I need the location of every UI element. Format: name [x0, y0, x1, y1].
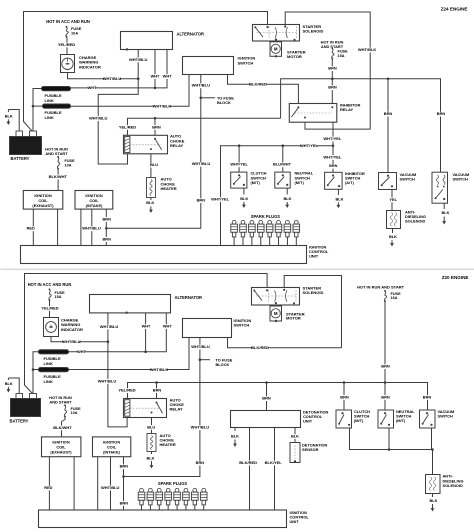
svg-text:10A: 10A — [71, 411, 78, 415]
node HOT IN RUN AND START (relay feed) — [321, 40, 344, 50]
svg-text:BLK/YEL: BLK/YEL — [265, 460, 283, 465]
ignition coil exhaust (Z20) — [42, 437, 81, 457]
wire exhaust coil second output (Z20) — [73, 457, 75, 510]
svg-text:BRN: BRN — [153, 388, 162, 393]
ground anti-dieseling solenoid — [389, 229, 397, 247]
svg-text:BLK: BLK — [240, 196, 248, 201]
svg-text:UNIT: UNIT — [309, 254, 319, 259]
svg-text:BRN: BRN — [262, 396, 271, 401]
svg-text:HOT IN RUN AND START: HOT IN RUN AND START — [357, 284, 405, 289]
node HOT IN ACC AND RUN (Z20) — [28, 282, 72, 287]
svg-text:BLK: BLK — [442, 210, 450, 215]
wire BRN fuse to bus (Z20) — [381, 302, 390, 383]
starter solenoid (Z20) — [252, 286, 324, 306]
svg-text:WHT/BLK: WHT/BLK — [153, 104, 172, 109]
svg-text:BLK/WHT: BLK/WHT — [49, 174, 68, 179]
ignition control unit (Z24) — [21, 245, 329, 264]
svg-text:AND START: AND START — [49, 400, 72, 405]
wire BRN distribution bus (Z20) — [128, 381, 428, 410]
node BRN relay feed — [152, 124, 161, 130]
wire WHT/BLK fusible link to ignition switch — [71, 75, 190, 110]
wire BRN to vacuum switch 1 — [384, 79, 393, 173]
wire RED exhaust coil to control unit — [27, 209, 35, 245]
node HOT IN ACC AND RUN — [46, 19, 90, 24]
ignition coil exhaust (Z24) — [23, 191, 63, 210]
wire BRN neutral switch feed (Z20) — [381, 383, 390, 411]
svg-text:BRN: BRN — [381, 394, 390, 399]
ground battery negative (Z20) — [5, 378, 13, 393]
svg-text:BLK/RED: BLK/RED — [249, 82, 267, 87]
svg-text:INDICATOR: INDICATOR — [61, 327, 83, 332]
svg-text:BRN: BRN — [328, 66, 337, 71]
svg-text:LINK: LINK — [45, 98, 54, 103]
svg-text:WHT/BLU: WHT/BLU — [103, 76, 122, 81]
svg-text:WHT: WHT — [163, 74, 172, 79]
svg-text:FUSE: FUSE — [338, 50, 349, 54]
svg-text:SOLENOID: SOLENOID — [303, 290, 324, 295]
svg-text:SWITCH: SWITCH — [453, 177, 469, 182]
fuse FUSE 10A (coil feed Z20) — [64, 404, 81, 417]
svg-text:SWITCH: SWITCH — [438, 413, 454, 418]
svg-text:YEL: YEL — [389, 197, 397, 202]
wire BRN fuse to inhibitor relay — [328, 60, 337, 104]
wire BLU relay to choke heater (Z20) — [147, 418, 155, 434]
svg-text:SWITCH: SWITCH — [238, 60, 254, 65]
svg-text:BRN: BRN — [423, 394, 432, 399]
svg-text:WHT: WHT — [142, 324, 151, 329]
svg-text:SPARK PLUGS: SPARK PLUGS — [251, 214, 281, 219]
svg-text:ALTERNATOR: ALTERNATOR — [177, 31, 205, 36]
starter solenoid (Z24) — [253, 24, 324, 41]
panel separator line — [1, 268, 474, 270]
switch vacuum (Z20) — [420, 409, 455, 428]
svg-text:WHT/BLU: WHT/BLU — [89, 115, 108, 120]
wire WHT/BLU ignition switch run — [106, 75, 210, 229]
svg-text:BRN: BRN — [102, 236, 111, 241]
wire BLK/WHT fuse to exhaust coil — [49, 170, 68, 191]
heater auto choke (Z24) — [147, 177, 177, 198]
ground battery negative (Z24) — [5, 110, 13, 126]
svg-text:BLK: BLK — [430, 498, 438, 503]
svg-text:16A: 16A — [391, 296, 398, 300]
ignition switch (Z20) — [183, 318, 252, 338]
wire battery negative to ground (Z20) — [8, 378, 19, 394]
wire BLU/WHT neutral switch feed — [273, 146, 292, 172]
ground neutral switch — [284, 188, 292, 208]
solenoid anti-dieseling (Z20) — [426, 474, 464, 494]
svg-text:WHT/YEL: WHT/YEL — [211, 197, 230, 202]
svg-text:RED: RED — [27, 226, 35, 231]
switch neutral (Z24) — [275, 171, 314, 188]
svg-text:(M/T): (M/T) — [396, 418, 406, 423]
wire battery positive feed (Z20 border run) — [25, 274, 268, 394]
switch vacuum 1 (Z24) — [379, 172, 417, 190]
svg-text:WHT/BLU: WHT/BLU — [98, 378, 117, 383]
wire stub TO FUSE BLOCK — [201, 95, 234, 105]
wire WHT alternator pins to bus — [71, 50, 173, 91]
wire YEL/RED fuse to indicator (Z20) — [41, 301, 58, 318]
wire solenoid to starter motor — [275, 40, 277, 43]
svg-text:WHT/BLU: WHT/BLU — [100, 324, 119, 329]
heater auto choke (Z20) — [147, 433, 176, 452]
svg-text:BLK: BLK — [336, 196, 344, 201]
wire WHT alternator pins to bus (Z20) — [69, 313, 173, 355]
wire WHT/BLK fusible link to ignition switch (Z20) — [69, 338, 190, 373]
svg-text:HEATER: HEATER — [160, 442, 176, 447]
ignition coil intake (Z20) — [93, 437, 131, 457]
svg-text:RELAY: RELAY — [170, 407, 184, 412]
svg-text:BLK/RED: BLK/RED — [239, 460, 257, 465]
ground clutch switch — [240, 188, 248, 208]
fusible link 2 (Z20) — [39, 368, 69, 385]
svg-text:BLK: BLK — [5, 381, 13, 386]
wire solenoid to starter motor (Z20) — [275, 305, 277, 306]
svg-text:(EXHAUST): (EXHAUST) — [32, 203, 54, 208]
svg-text:YEL/RED: YEL/RED — [119, 124, 136, 129]
svg-text:MOTOR: MOTOR — [287, 54, 302, 59]
node SPARK PLUGS (Z24) — [251, 214, 281, 219]
wire BLK/RED detonation to control unit — [239, 428, 257, 511]
fuse FUSE 15A (relay feed) — [331, 47, 348, 59]
indicator charge warning (Z24) — [61, 55, 101, 73]
switch clutch (Z20) — [336, 409, 370, 428]
svg-text:WHT/BLK: WHT/BLK — [358, 47, 377, 52]
wire WHT/BLU intake coil output b — [82, 209, 101, 245]
wire WHT/YEL inhibitor relay to switches — [323, 122, 342, 172]
svg-text:WHT/BLU: WHT/BLU — [82, 226, 101, 231]
svg-text:(INTAKE): (INTAKE) — [103, 450, 120, 455]
svg-text:WHT/YEL: WHT/YEL — [323, 155, 342, 160]
svg-text:WHT: WHT — [151, 74, 160, 79]
ignition switch (Z24) — [183, 56, 256, 75]
fuse FUSE 10A (charge indicator) — [66, 26, 82, 38]
svg-text:M: M — [274, 47, 278, 52]
svg-text:BLK/RED: BLK/RED — [251, 345, 269, 350]
svg-text:BLK: BLK — [231, 434, 239, 439]
svg-text:RED: RED — [44, 485, 52, 490]
wire fusible links to battery positive — [32, 89, 43, 132]
wire BRN vacuum switch feed (Z20) — [423, 394, 432, 400]
svg-text:WHT/BLU: WHT/BLU — [129, 57, 148, 62]
starter motor (Z20) — [270, 306, 305, 322]
svg-text:BRN: BRN — [102, 216, 111, 221]
wire BRN choke relay feed (Z20) — [153, 383, 162, 399]
switch clutch (Z24) — [231, 171, 267, 188]
svg-text:SWITCH: SWITCH — [400, 177, 416, 182]
wire WHT/BLU indicator to alternator junction — [68, 73, 140, 82]
wire BRN clutch switch feed (Z20) — [340, 383, 349, 411]
fusible link 1 (Z24) — [42, 87, 71, 103]
wire BRN intake coil output c — [102, 209, 111, 245]
wire starter solenoid to inhibitor relay (top right run) — [285, 12, 370, 129]
svg-text:HOT IN ACC AND RUN: HOT IN ACC AND RUN — [46, 19, 90, 24]
svg-text:BLK: BLK — [146, 200, 154, 205]
indicator charge warning (Z20) — [44, 318, 83, 337]
switch inhibitor (Z24) — [325, 171, 365, 189]
svg-text:AND START: AND START — [45, 151, 68, 156]
ground choke heater (Z24) — [146, 198, 154, 214]
svg-text:BRN: BRN — [381, 364, 390, 369]
svg-text:YEL/RED: YEL/RED — [41, 305, 58, 310]
svg-text:FUSE: FUSE — [391, 292, 402, 296]
fusible link 2 (Z24) — [43, 104, 71, 120]
battery (Z20) — [10, 394, 41, 424]
svg-text:Z24 ENGINE: Z24 ENGINE — [441, 7, 468, 12]
ignition coil intake (Z24) — [75, 191, 113, 210]
svg-text:BLOCK: BLOCK — [217, 100, 231, 105]
wire BRN to vacuum switch 2 label — [437, 111, 446, 117]
svg-text:(A/T): (A/T) — [345, 180, 355, 185]
svg-text:SWITCH: SWITCH — [234, 323, 250, 328]
wire exhaust coil second output — [57, 209, 59, 245]
wire intake coil output a — [80, 209, 82, 245]
wire battery positive feed (left border / top run) — [24, 12, 268, 132]
svg-text:(EXHAUST): (EXHAUST) — [50, 450, 72, 455]
wire WHT/BLU indicator junction (Z20) — [51, 337, 109, 345]
switch vacuum 2 (Z24) — [432, 172, 469, 203]
svg-text:LINK: LINK — [45, 115, 54, 120]
wire YEL vacuum switch to solenoid — [389, 190, 397, 211]
svg-text:BRN: BRN — [437, 111, 446, 116]
svg-text:BLU: BLU — [150, 162, 158, 167]
svg-text:BATTERY: BATTERY — [11, 156, 30, 161]
fusible link 1 (Z20) — [39, 350, 69, 366]
node SPARK PLUGS (Z20) — [158, 481, 188, 486]
svg-text:Z20 ENGINE: Z20 ENGINE — [442, 275, 469, 280]
svg-text:WHT/BLU: WHT/BLU — [101, 485, 120, 490]
node YEL/RED relay feed — [119, 124, 136, 130]
svg-text:SENSOR: SENSOR — [302, 447, 319, 452]
svg-text:BRN: BRN — [197, 198, 206, 203]
relay auto choke (Z24) — [124, 134, 185, 154]
wire BLK/RED ignition switch to inhibitor relay — [228, 75, 299, 104]
svg-text:BRN: BRN — [152, 124, 161, 129]
wire intake coil output a (Z20) — [97, 457, 99, 510]
fuse FUSE 15A (charge indicator Z20) — [49, 288, 65, 301]
svg-text:ALTERNATOR: ALTERNATOR — [175, 295, 203, 300]
svg-text:BLK: BLK — [147, 455, 155, 460]
ground anti-dieseling solenoid (Z20) — [430, 494, 438, 512]
wire WHT/BLU alternator output — [89, 50, 148, 165]
engine label Z20 — [442, 275, 469, 280]
switch neutral (Z20) — [378, 409, 415, 428]
fuse FUSE 16A (bus feed Z20) — [384, 290, 401, 302]
svg-text:BRN: BRN — [329, 164, 337, 168]
svg-text:BRN: BRN — [120, 464, 129, 469]
svg-text:SOLENOID: SOLENOID — [443, 483, 464, 488]
wire starter solenoid to BLK/RED run (Z20) — [284, 276, 341, 348]
wire WHT/BLK solenoid branch label — [358, 47, 377, 53]
wire BRN distribution bus — [281, 78, 441, 173]
wire BRN detonation unit feed — [262, 383, 271, 411]
svg-text:WHT/BLU: WHT/BLU — [192, 161, 211, 166]
svg-text:BLK: BLK — [284, 196, 292, 201]
wire BLK/YEL detonation to control unit — [265, 428, 283, 511]
alternator (Z24) — [121, 31, 205, 50]
svg-text:BRN: BRN — [340, 394, 349, 399]
wire BLU relay to choke heater — [150, 154, 158, 178]
svg-text:WHT: WHT — [88, 85, 97, 90]
svg-text:BLK: BLK — [5, 113, 13, 118]
node HOT IN RUN AND START (coil feed) — [45, 147, 68, 157]
svg-text:YEL/RED: YEL/RED — [118, 388, 135, 393]
ignition control unit (Z20) — [39, 510, 310, 528]
ground detonation unit left — [231, 428, 239, 448]
alternator (Z20) — [90, 295, 203, 314]
node YEL/RED relay feed (Z20) — [118, 388, 135, 394]
svg-text:BLU: BLU — [147, 424, 155, 429]
svg-text:SOLENOID: SOLENOID — [405, 219, 426, 224]
svg-text:WHT: WHT — [77, 349, 86, 354]
svg-text:WHT: WHT — [163, 324, 172, 329]
starter motor (Z24) — [270, 42, 306, 59]
spark plugs x8 (Z24) — [231, 220, 300, 245]
svg-text:(M/T): (M/T) — [354, 418, 364, 423]
wire BRN intake coil output c (Z20) — [120, 457, 129, 510]
svg-text:15A: 15A — [338, 54, 345, 58]
wire battery negative to ground — [8, 110, 19, 132]
svg-text:BLK: BLK — [291, 434, 299, 439]
svg-text:(M/T): (M/T) — [251, 180, 261, 185]
svg-text:BLK: BLK — [389, 234, 397, 239]
wire BLK detonation sensor feed — [291, 428, 299, 443]
svg-text:HEATER: HEATER — [161, 186, 177, 191]
wire WHT/BLU intake coil output b (Z20) — [101, 457, 120, 510]
wire WHT/BLU alternator output (Z20) — [98, 313, 127, 427]
svg-text:WHT/BLU: WHT/BLU — [192, 83, 211, 88]
svg-text:UNIT: UNIT — [290, 519, 300, 524]
svg-text:BLOCK: BLOCK — [216, 362, 230, 367]
svg-text:YEL/RED: YEL/RED — [58, 42, 75, 47]
svg-text:MOTOR: MOTOR — [286, 316, 301, 321]
svg-text:BRN: BRN — [120, 500, 129, 505]
svg-text:WHT/YEL: WHT/YEL — [230, 162, 248, 167]
svg-text:HOT IN ACC AND RUN: HOT IN ACC AND RUN — [28, 282, 72, 287]
relay inhibitor (Z24) — [289, 102, 360, 122]
svg-text:RELAY: RELAY — [340, 107, 354, 112]
svg-text:RELAY: RELAY — [170, 143, 184, 148]
relay auto choke (Z20) — [124, 398, 185, 418]
node HOT IN RUN AND START (coil feed Z20) — [49, 395, 72, 405]
node HOT IN RUN AND START (bus feed Z20) — [357, 284, 405, 289]
wire switch output bus (Z20) — [350, 429, 434, 475]
wire BLK/RED ignition switch to solenoid branch (Z20) — [228, 338, 342, 351]
svg-text:WHT/BLK: WHT/BLK — [150, 367, 169, 372]
wire YEL/RED fuse to indicator — [58, 38, 75, 55]
svg-text:WHT/BLU: WHT/BLU — [191, 344, 210, 349]
svg-text:10A: 10A — [71, 30, 78, 35]
svg-text:M: M — [274, 311, 278, 316]
svg-text:BRN: BRN — [384, 111, 393, 116]
solenoid anti-dieseling (Z24) — [387, 209, 426, 228]
detonation sensor — [290, 443, 328, 463]
svg-text:WHT/BLU: WHT/BLU — [191, 425, 210, 430]
wire fusible links to battery positive (Z20) — [32, 352, 39, 394]
spark plugs x8 (Z20) — [138, 488, 207, 510]
svg-text:BATTERY: BATTERY — [10, 419, 29, 424]
svg-text:INDICATOR: INDICATOR — [79, 64, 101, 69]
battery (Z24) — [10, 131, 42, 161]
ground choke heater (Z20) — [147, 452, 155, 469]
svg-text:BLK/WHT: BLK/WHT — [53, 425, 72, 430]
svg-text:(INTAKE): (INTAKE) — [86, 203, 103, 208]
svg-text:10A: 10A — [65, 163, 72, 167]
fuse FUSE 10A (coil feed) — [57, 156, 75, 170]
wire WHT/BLU ignition switch run (Z20) — [124, 338, 210, 477]
ground inhibitor switch — [336, 189, 344, 208]
svg-text:FUSE: FUSE — [71, 407, 82, 411]
svg-text:15A: 15A — [55, 295, 62, 299]
wire RED exhaust coil to unit (Z20) — [44, 457, 52, 510]
svg-text:(M/T): (M/T) — [295, 180, 305, 185]
svg-text:FUSE: FUSE — [55, 291, 66, 295]
svg-text:WHT/YEL: WHT/YEL — [300, 143, 319, 148]
svg-text:LINK: LINK — [44, 379, 53, 384]
wire accessory feed line — [128, 117, 281, 135]
svg-text:BLU/WHT: BLU/WHT — [273, 162, 292, 167]
engine label Z24 — [441, 7, 468, 12]
svg-text:UNIT: UNIT — [303, 419, 313, 424]
wire BLK/WHT fuse to exhaust coil (Z20) — [53, 418, 72, 437]
ground vacuum switch 2 — [442, 203, 450, 224]
wire WHT/YEL bus to control unit — [211, 143, 333, 245]
svg-text:FUSE: FUSE — [65, 159, 76, 163]
svg-text:WHT/BLU: WHT/BLU — [62, 339, 81, 344]
svg-text:SPARK PLUGS: SPARK PLUGS — [158, 481, 188, 486]
svg-text:LINK: LINK — [44, 361, 53, 366]
svg-text:BRN: BRN — [328, 85, 337, 90]
detonation control unit — [231, 409, 329, 427]
wire WHT/YEL clutch switch feed — [230, 146, 248, 172]
wire stub TO FUSE BLOCK (Z20) — [200, 357, 233, 367]
svg-text:WHT/YEL: WHT/YEL — [323, 136, 342, 141]
svg-text:BRN: BRN — [196, 460, 205, 465]
svg-text:SOLENOID: SOLENOID — [303, 29, 324, 34]
